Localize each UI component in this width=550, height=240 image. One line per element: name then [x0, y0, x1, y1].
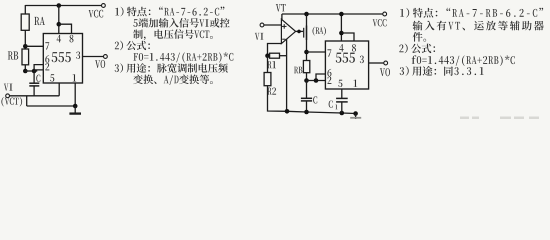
capacitor C1 — [341, 89, 343, 98]
wire: R2 to ground rail corner — [268, 86, 288, 112]
wire: left VCC top rail — [25, 5, 101, 7]
pin label 8 (middle) — [352, 44, 356, 52]
label 555 (middle) — [336, 53, 355, 63]
node: pin4/8 split (middle) — [339, 31, 344, 36]
pin label 3 — [76, 51, 80, 59]
pin label 2 — [45, 63, 49, 70]
wire: VCC top rail (middle) — [282, 13, 383, 15]
pin label 3 (middle) — [360, 56, 364, 64]
label VO (middle) — [380, 68, 390, 76]
terminal VI (middle) — [260, 23, 264, 27]
wire: elbow to pin 8 — [59, 24, 72, 33]
text: right notes block — [400, 8, 543, 18]
label VO (left) — [95, 60, 105, 68]
wire: to pin 2 — [34, 70, 43, 71]
ground (middle circuit) — [355, 114, 357, 120]
pin label 5 (middle) — [338, 80, 342, 87]
capacitor C (middle) — [306, 81, 308, 98]
resistor RB — [22, 49, 29, 65]
label (VCT) — [1, 97, 22, 107]
capacitor C (left) — [33, 71, 35, 83]
pin label 4 (middle) — [339, 44, 343, 51]
pin label 2 (middle) — [327, 77, 331, 84]
node: capC-ground — [304, 110, 309, 115]
resistor RB (middle) — [303, 61, 309, 73]
wire: VI to pin 5 — [10, 95, 60, 97]
resistor RA — [21, 14, 29, 30]
node: pin4/8 split — [57, 22, 62, 27]
terminal VI (left) — [6, 94, 10, 98]
wire: drain lead — [306, 14, 308, 26]
wire: pin 2 (middle) — [307, 80, 326, 82]
label VT — [276, 4, 286, 11]
terminal VCC (left circuit) — [102, 4, 106, 8]
label RA — [34, 17, 45, 25]
wire: rail down to RA — [24, 5, 26, 15]
wire: op-amp output to gate — [296, 30, 304, 32]
label VI (left) — [4, 84, 13, 91]
node: pin1-ground — [353, 111, 358, 116]
label 555 (left) — [52, 52, 71, 62]
op-amp U2 triangle — [281, 19, 295, 43]
label RB (middle) — [294, 67, 302, 74]
faint cut text bottom right — [460, 117, 539, 120]
op IC 555 (left) U1 — [43, 34, 82, 84]
terminal VO (middle) — [384, 61, 388, 65]
pin label 5 — [50, 74, 54, 81]
text: left notes block — [115, 7, 224, 17]
pin label 6 (middle) — [327, 69, 331, 77]
label (RA) — [313, 27, 326, 36]
wire: to pin 7 — [25, 45, 43, 47]
node: capC1-ground — [340, 111, 345, 116]
pin label 6 — [45, 55, 49, 63]
pin label 7 (middle) — [327, 49, 331, 56]
wire: up and right to pin 6 — [34, 65, 43, 71]
terminal VCC (middle) — [383, 12, 387, 16]
resistor R1 (horizontal) — [270, 53, 280, 58]
wire: feedback vertical to ground rail — [286, 39, 288, 111]
node: cap/pin junction — [32, 69, 37, 74]
node: gate wire dot — [297, 30, 301, 34]
wire: elbow to pin 8 (middle) — [341, 33, 354, 41]
wire: ground rail (left circuit) — [27, 105, 75, 107]
node: pin7 junction — [23, 44, 28, 49]
label VCC (middle) — [373, 19, 387, 26]
node: ground junction — [73, 104, 78, 109]
wire: RA to RB / pin7 node — [24, 30, 26, 49]
ground (left circuit) — [74, 106, 76, 113]
pin label 8 — [70, 35, 74, 43]
node: VCC rail junction (middle) — [339, 12, 344, 17]
wire: VI to op-amp + input — [264, 24, 282, 26]
label R2 — [267, 87, 276, 94]
wire: junction horizontal — [25, 70, 34, 72]
op IC 555 (middle) U3 — [325, 41, 368, 89]
wire: R1 to feedback vertical — [280, 55, 287, 57]
resistor R2 — [264, 73, 271, 86]
wire: op-amp top corner to VCC rail — [281, 14, 283, 20]
label C1 — [329, 100, 333, 107]
pin label 1 (middle) — [354, 80, 358, 87]
wire: to pin 7 (middle) — [307, 51, 326, 53]
node: pin2/cap junction — [304, 78, 309, 83]
label R1 — [267, 61, 276, 68]
wire: down to ground rail — [26, 96, 28, 106]
label C (left) — [36, 75, 40, 82]
wire: junction down to pin 4 — [58, 6, 60, 34]
wire: RB to pin2 node — [306, 73, 308, 81]
node: junction at RB bottom — [23, 69, 28, 74]
node: feedback-ground — [285, 109, 290, 114]
terminal VO (left) — [104, 55, 108, 59]
wire: RB down to pin2/6 node — [24, 65, 26, 71]
label RB — [8, 51, 18, 59]
node: VT drain junction — [304, 12, 309, 17]
wire: VT source down to pin7 node — [306, 40, 308, 61]
wire: pin 3 to VO (middle) — [369, 62, 384, 64]
wire: pin 1 to ground — [74, 83, 76, 106]
pin label 1 — [73, 74, 77, 81]
transistor VT (mosfet) — [306, 26, 308, 41]
pin label 4 — [57, 35, 61, 42]
wire: pin 3 to VO — [83, 56, 104, 58]
wire: VCC rail to pins 4/8 (middle) — [340, 14, 342, 41]
wire: ground rail (middle) — [287, 111, 356, 113]
node: pin6 branch — [314, 78, 319, 83]
wire: - input elbow — [268, 44, 282, 56]
wire: R2 rail — [267, 56, 269, 73]
label VCC (left) — [89, 10, 104, 18]
pin label 7 — [45, 42, 49, 49]
label VI (middle) — [255, 33, 264, 40]
node: pin7 junction (middle) — [304, 50, 309, 55]
node: top rail junction to pins 4/8 — [57, 3, 62, 8]
op-amp + mark — [282, 25, 287, 27]
wire: up to pin 6 (middle) — [316, 74, 325, 81]
node: R1/R2 junction — [265, 53, 270, 58]
op-amp - mark — [282, 38, 285, 40]
label C (middle) — [313, 96, 317, 103]
